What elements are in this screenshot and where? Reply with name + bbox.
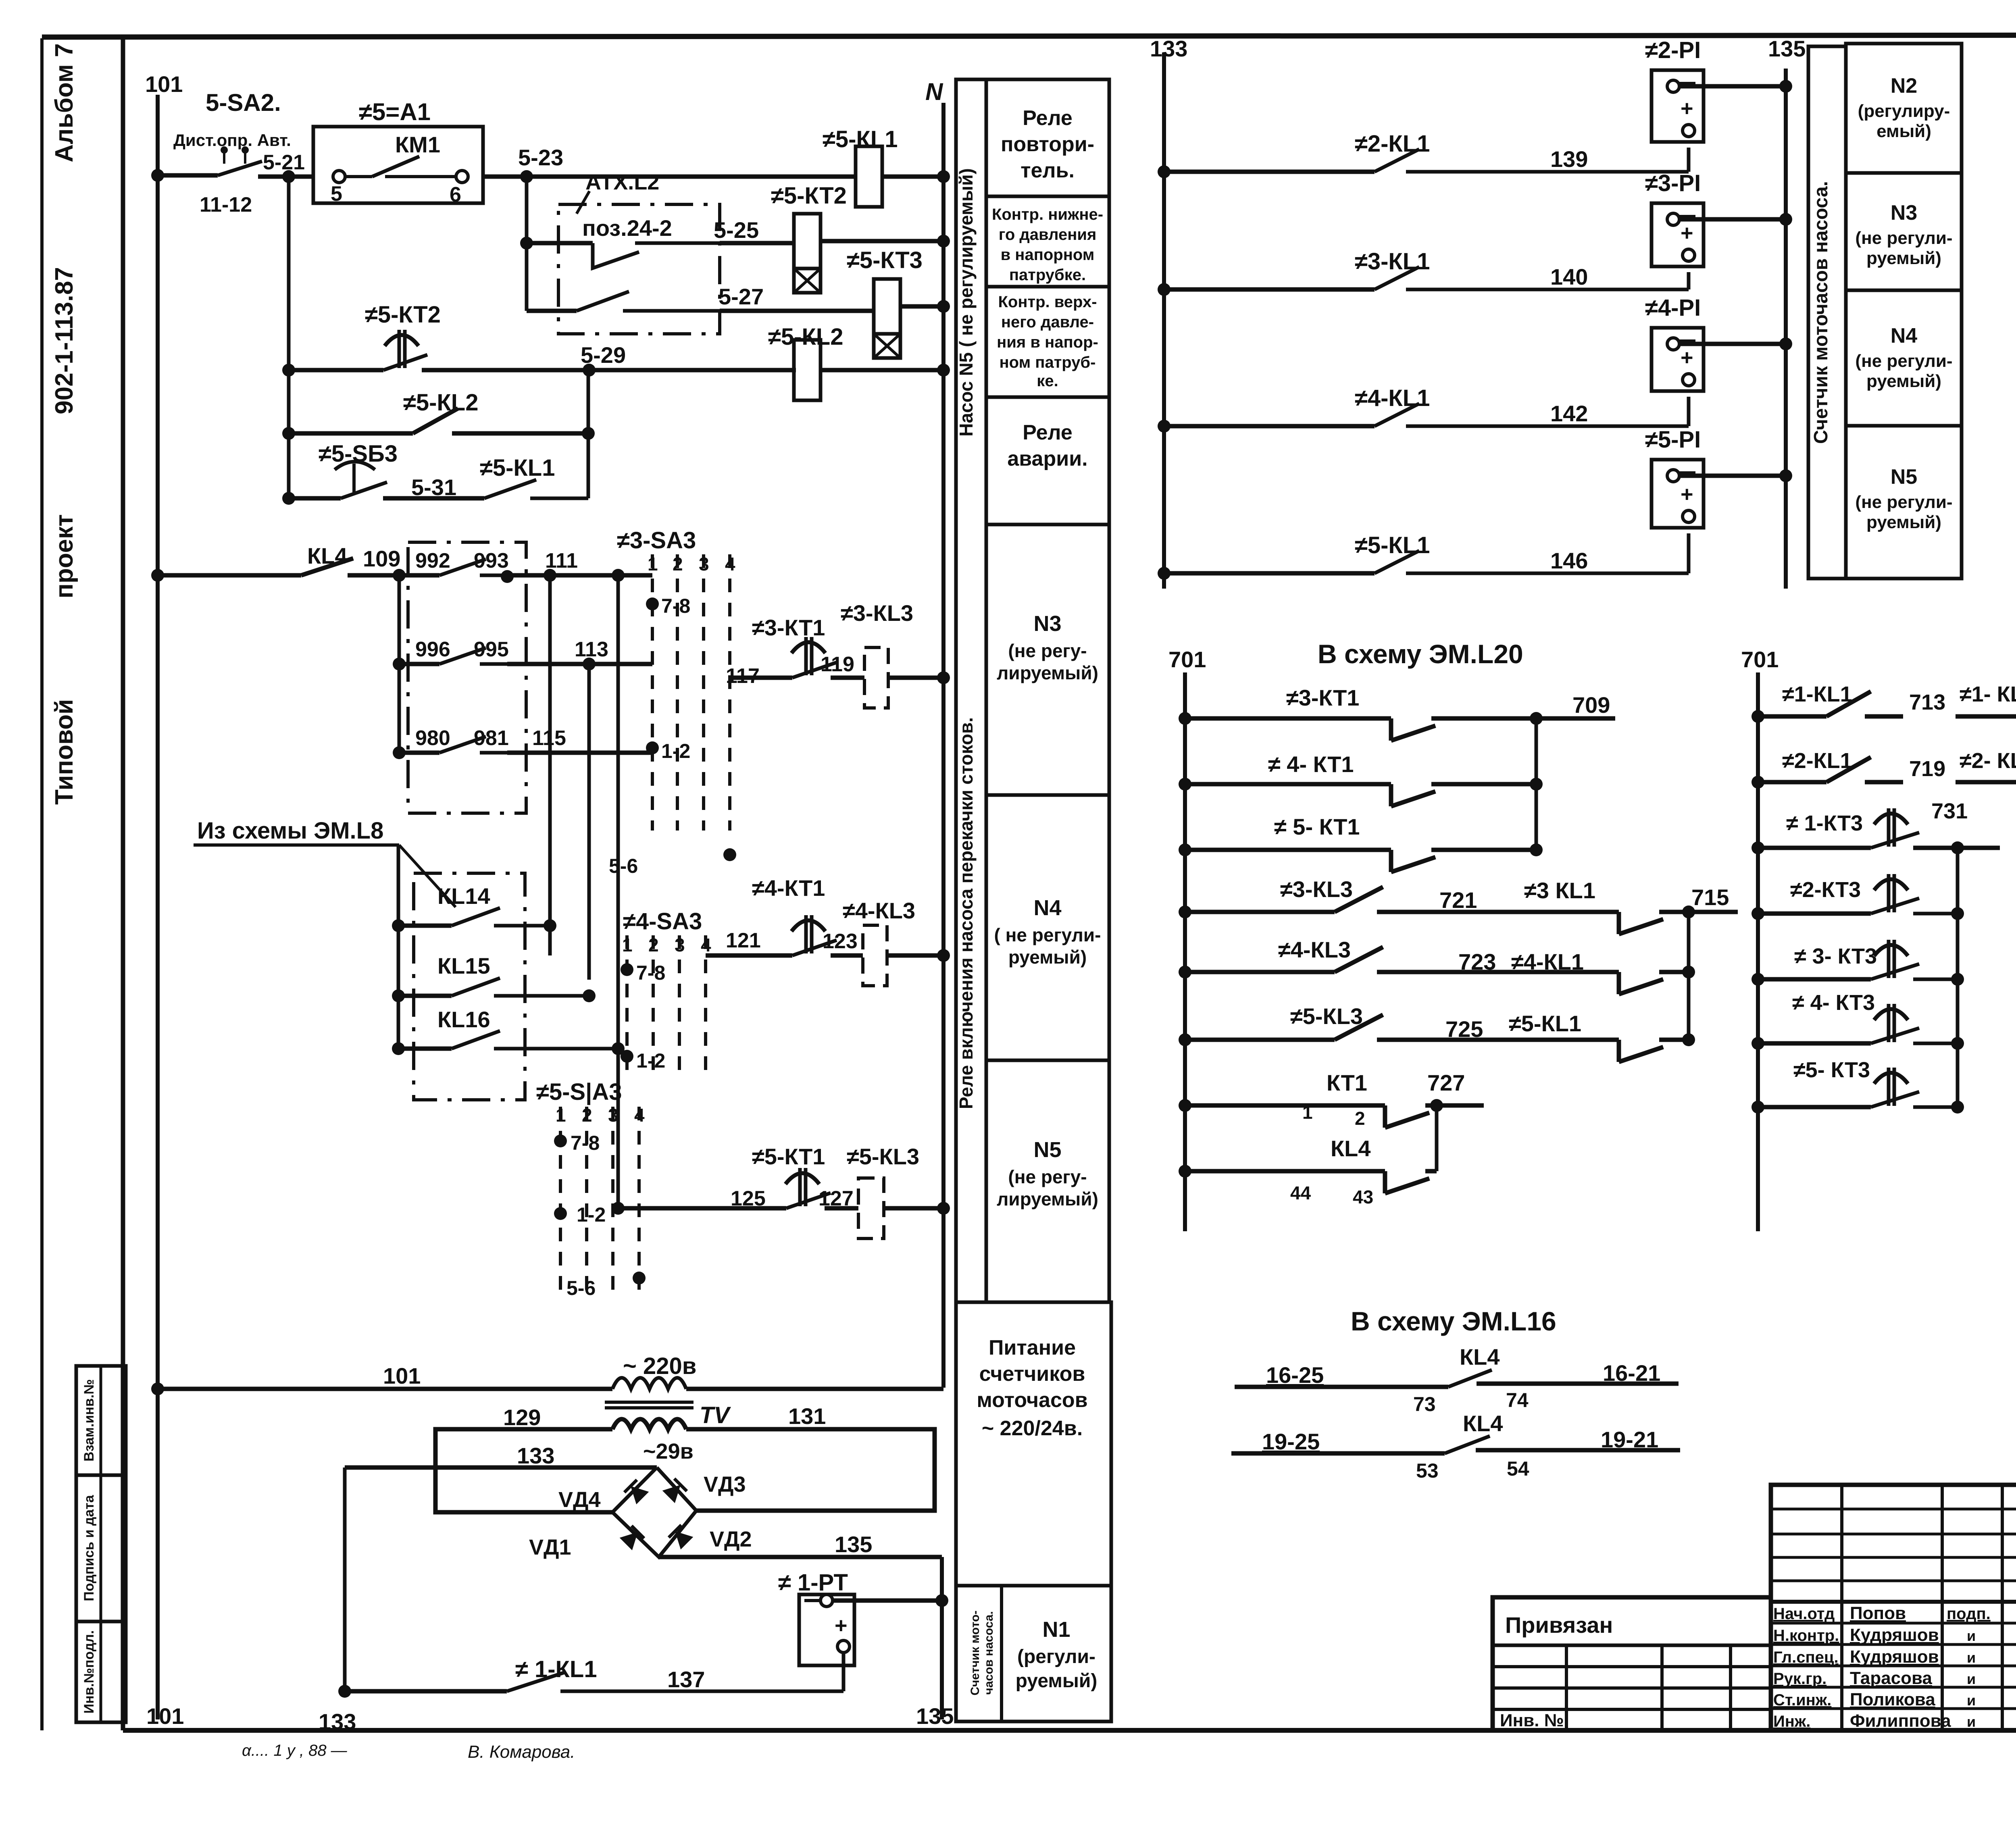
svg-text:≠5-SБ3: ≠5-SБ3 <box>319 441 398 467</box>
contact ≠1-KL2 r <box>1956 714 2016 719</box>
contact 980-981 <box>393 746 406 759</box>
svg-text:Из схемы ЭМ.L8: Из схемы ЭМ.L8 <box>197 818 383 844</box>
node 7-8 <box>646 597 659 610</box>
svg-text:Нач.отд: Нач.отд <box>1773 1605 1835 1623</box>
node 701r row6 <box>1752 1037 1764 1050</box>
node 701r row1 <box>1752 710 1764 723</box>
bus 101 vertical <box>156 95 160 1719</box>
contact KL4 19 row <box>1445 1436 1490 1453</box>
pressure relay box ≠1-PT <box>799 1594 854 1665</box>
svg-text:VД2: VД2 <box>710 1527 752 1551</box>
svg-text:993: 993 <box>474 549 509 572</box>
svg-text:+: + <box>1681 221 1693 245</box>
node 701 5kt1 <box>1179 843 1191 856</box>
svg-text:Контр. верх-: Контр. верх- <box>998 293 1097 311</box>
box N4 divider <box>986 1059 1109 1062</box>
wire 121 row <box>706 953 792 958</box>
svg-text:1: 1 <box>1302 1102 1313 1123</box>
svg-text:142: 142 <box>1550 401 1588 426</box>
wire ≠2-РI minus to 135 rail <box>1679 84 1786 89</box>
node 1-2 <box>646 741 659 754</box>
svg-text:N4: N4 <box>1033 896 1061 920</box>
wire 115 row <box>507 751 652 755</box>
contact ≠1-KT3 time <box>1758 846 1871 850</box>
N rail vertical <box>941 103 946 1388</box>
rail into KL contacts <box>397 845 400 1049</box>
svg-text:980: 980 <box>415 726 450 750</box>
svg-text:N5: N5 <box>1891 465 1917 489</box>
transformer TV core <box>605 1401 694 1404</box>
svg-text:в напорном: в напорном <box>1001 246 1095 264</box>
svg-text:ния в напор-: ния в напор- <box>997 333 1098 351</box>
node 133 row 140 <box>1158 283 1170 296</box>
coil ≠5-KL1 on row1 <box>856 146 882 207</box>
svg-text:5-27: 5-27 <box>719 284 764 309</box>
relay box поз.24-2 dash-dot outline <box>558 204 720 334</box>
svg-text:В. Комарова.: В. Комарова. <box>468 1742 575 1762</box>
wire ≠5-РI minus to 135 rail <box>1679 474 1786 478</box>
svg-text:≠5-S|А3: ≠5-S|А3 <box>536 1079 622 1105</box>
≠3-РI plus terminal <box>1683 249 1695 261</box>
coil ≠5-KT3 with X <box>874 279 900 334</box>
svg-text:146: 146 <box>1550 548 1588 573</box>
svg-text:101: 101 <box>146 1703 184 1729</box>
contact ≠3-KT1 time <box>791 642 825 653</box>
wire 731 <box>1913 846 1958 850</box>
contact ≠2-KL1 r <box>1758 780 1826 785</box>
contact 992-993 <box>399 573 439 578</box>
wire 5-27 to N <box>900 304 943 309</box>
svg-text:~ 220/24в.: ~ 220/24в. <box>982 1417 1083 1440</box>
wire 731 stub <box>1958 846 2000 850</box>
node 109 <box>393 569 406 582</box>
svg-text:Поликова: Поликова <box>1850 1690 1935 1709</box>
wire 5-21 <box>258 175 313 179</box>
wire ≠4-РI minus to 135 rail <box>1679 342 1786 346</box>
wire 19-21 <box>1476 1448 1680 1453</box>
svg-text:N1: N1 <box>1042 1617 1070 1642</box>
svg-text:Реле: Реле <box>1023 421 1073 444</box>
svg-text:Счетчик мото-: Счетчик мото- <box>968 1611 982 1696</box>
contact ≠1-KL1 bottom <box>507 1672 566 1691</box>
leader line АТХ.L2 <box>577 191 589 214</box>
diode bridge frame <box>612 1467 696 1557</box>
svg-text:Гл.спец.: Гл.спец. <box>1773 1649 1839 1666</box>
svg-text:140: 140 <box>1550 264 1588 289</box>
descriptor column outer box <box>956 79 1109 1302</box>
contact ≠4-KT1 time <box>791 920 825 931</box>
selector 5-SA3 dashed columns <box>559 1107 562 1298</box>
svg-text:Инв.№подл.: Инв.№подл. <box>81 1630 97 1714</box>
svg-text:часов насоса.: часов насоса. <box>982 1611 996 1694</box>
svg-text:лируемый): лируемый) <box>997 662 1098 683</box>
svg-text:Счетчик моточасов насоса.: Счетчик моточасов насоса. <box>1810 181 1832 444</box>
svg-text:ТV: ТV <box>700 1402 731 1428</box>
svg-text:Кудряшов: Кудряшов <box>1850 1647 1939 1667</box>
svg-text:≠ 5- КТ1: ≠ 5- КТ1 <box>1274 814 1360 839</box>
contact KM1 <box>333 171 345 183</box>
rail 135 vertical <box>940 1557 944 1719</box>
svg-text:2: 2 <box>582 1105 592 1126</box>
svg-text:721: 721 <box>1439 887 1477 913</box>
svg-text:Альбом 7: Альбом 7 <box>50 43 78 162</box>
svg-text:109: 109 <box>363 546 400 571</box>
svg-text:3: 3 <box>699 554 709 575</box>
svg-text:Дист.опр. Авт.: Дист.опр. Авт. <box>173 131 291 150</box>
svg-text:≠1-КL1: ≠1-КL1 <box>1782 682 1852 706</box>
contact ≠3-KL3 L20 <box>1185 910 1335 914</box>
svg-text:≠5-КL1: ≠5-КL1 <box>480 455 555 481</box>
svg-text:(не регу-: (не регу- <box>1008 640 1087 661</box>
contact KL14 <box>392 919 405 932</box>
bus 133 vertical <box>1162 52 1166 589</box>
contact ≠3-КL1 <box>1164 287 1375 292</box>
vertical 715 column <box>1687 912 1691 1040</box>
svg-text:≠5=А1: ≠5=А1 <box>359 98 431 125</box>
name table thick divider <box>1771 1600 2016 1604</box>
svg-text:709: 709 <box>1572 692 1610 718</box>
contact ≠1-KL1 r <box>1758 714 1826 719</box>
svg-text:КL4: КL4 <box>1463 1411 1503 1436</box>
wire 709 <box>1530 712 1543 725</box>
svg-text:≠3-КL1: ≠3-КL1 <box>1355 248 1430 275</box>
frame border left <box>121 35 125 1730</box>
svg-text:α.... 1 у , 88 —: α.... 1 у , 88 — <box>242 1742 348 1759</box>
left rail of rows 2-5 <box>287 177 291 498</box>
wire 111 row <box>507 573 652 578</box>
contact ≠4-КL1 <box>1164 424 1375 429</box>
svg-text:731: 731 <box>1931 799 1968 823</box>
node 111b <box>612 569 625 582</box>
svg-text:руемый): руемый) <box>1866 512 1941 532</box>
svg-text:и: и <box>1967 1671 1976 1687</box>
wire 5-29 <box>422 368 796 373</box>
svg-text:+: + <box>1681 346 1693 370</box>
node 5SA3 5-6 <box>633 1272 646 1284</box>
wire row1 bus to SA2 <box>158 173 218 178</box>
svg-text:6: 6 <box>450 183 461 206</box>
node 701r row7 <box>1752 1101 1764 1114</box>
≠2-РI plus terminal <box>1683 125 1695 137</box>
contact ≠5-KL1 L20 <box>1597 1038 1619 1042</box>
box Реле повторитель divider <box>986 195 1109 198</box>
coil ≠5-KL2 row <box>794 340 821 400</box>
svg-text:АТХ.L2: АТХ.L2 <box>585 170 659 194</box>
svg-text:≠5-РI: ≠5-РI <box>1645 427 1701 453</box>
wire 133 horizontal <box>345 1465 657 1470</box>
Привязан divider h <box>1493 1644 1771 1647</box>
contact ≠2-КL1 <box>1164 170 1375 174</box>
left margin stamp inner divider <box>100 1366 102 1722</box>
node 133 row 146 <box>1158 567 1170 580</box>
svg-text:135: 135 <box>835 1532 872 1557</box>
svg-text:КМ1: КМ1 <box>395 132 440 157</box>
contact ≠2-KT3 time <box>1758 912 1871 916</box>
name table outer <box>1771 1485 2016 1730</box>
contact ≠3-KT3 time <box>1758 977 1871 982</box>
node bus 101 bottom branch <box>151 1382 164 1395</box>
node 133 row 142 <box>1158 420 1170 433</box>
contact ≠5-KL2 <box>289 431 413 436</box>
switch 5-SA2 dashed links <box>223 150 225 173</box>
svg-text:N3: N3 <box>1033 612 1061 636</box>
svg-text:≠5-КL2: ≠5-КL2 <box>768 324 843 350</box>
svg-text:121: 121 <box>726 929 761 952</box>
svg-text:руемый): руемый) <box>1016 1670 1098 1692</box>
wire 117 row <box>730 676 792 680</box>
svg-text:131: 131 <box>788 1403 826 1429</box>
box Реле аварии divider <box>986 523 1109 527</box>
svg-text:+: + <box>1681 96 1693 121</box>
svg-text:Попов: Попов <box>1850 1603 1906 1623</box>
wire 142 up to PI <box>1687 397 1691 426</box>
vertical 727 column <box>1435 1105 1439 1171</box>
svg-text:3: 3 <box>608 1105 619 1126</box>
wire 5-29 to N <box>821 368 943 373</box>
svg-text:139: 139 <box>1550 146 1588 172</box>
svg-text:133: 133 <box>517 1443 554 1468</box>
≠3-РI minus terminal <box>1667 213 1679 225</box>
svg-text:Филиппова: Филиппова <box>1850 1711 1951 1731</box>
svg-text:7-8: 7-8 <box>636 962 665 984</box>
svg-text:74: 74 <box>1506 1389 1529 1411</box>
node 701r row2 <box>1752 776 1764 789</box>
svg-text:1-2: 1-2 <box>577 1203 606 1226</box>
wire 146 up to PI <box>1687 533 1691 573</box>
node 5SA3 1-2 <box>554 1207 567 1220</box>
svg-text:КL4: КL4 <box>307 543 348 568</box>
node 111a <box>544 569 556 582</box>
svg-text:1-2: 1-2 <box>636 1049 665 1072</box>
svg-text:Рук.гр.: Рук.гр. <box>1773 1670 1826 1688</box>
svg-text:1: 1 <box>622 935 633 955</box>
pressure sensor box ≠2-РI <box>1652 70 1704 142</box>
wire 5-25 to N <box>821 239 943 244</box>
svg-text:счетчиков: счетчиков <box>979 1362 1085 1386</box>
coil ≠4-KL3 dash-dot <box>863 925 887 986</box>
wire into box row 5-25 <box>527 241 593 246</box>
node 5SA3 7-8 <box>554 1134 567 1147</box>
pressure sensor box ≠3-РI <box>1652 203 1704 266</box>
wire 137 row <box>345 1689 507 1694</box>
svg-text:Ст.инж.: Ст.инж. <box>1773 1691 1831 1709</box>
svg-text:5-21: 5-21 <box>263 151 305 174</box>
svg-text:Н.контр.: Н.контр. <box>1773 1627 1839 1644</box>
svg-text:5-31: 5-31 <box>411 475 456 500</box>
wire 131 <box>686 1429 935 1511</box>
svg-text:емый): емый) <box>1876 121 1931 141</box>
wire 129 <box>435 1429 612 1512</box>
svg-text:≠5-КТ2: ≠5-КТ2 <box>771 183 847 209</box>
node 701 kt1 row <box>1179 1099 1191 1112</box>
svg-text:≠4-КL3: ≠4-КL3 <box>1278 937 1351 962</box>
node 4SA3 1-2 <box>621 1050 633 1063</box>
svg-text:725: 725 <box>1445 1016 1483 1042</box>
name table verticals <box>1840 1485 1843 1730</box>
contact ≠3-KT1 L20 <box>1185 716 1391 721</box>
frame border bottom <box>123 1728 2016 1733</box>
svg-text:2: 2 <box>1355 1108 1365 1129</box>
wire PT down <box>842 1652 846 1691</box>
contact ≠5-КL1 <box>1164 571 1375 576</box>
contact KL15 <box>392 989 405 1002</box>
svg-text:119: 119 <box>821 653 854 676</box>
svg-text:≠4-КТ1: ≠4-КТ1 <box>752 875 825 901</box>
wire 5-23 <box>483 175 856 179</box>
svg-text:5-6: 5-6 <box>609 855 638 877</box>
wire 723 <box>1423 970 1597 974</box>
svg-text:В схему ЭМ.L20: В схему ЭМ.L20 <box>1318 639 1523 669</box>
wire 721 <box>1423 910 1597 914</box>
wire 715 stub <box>1689 910 1738 914</box>
svg-text:≠3 КL1: ≠3 КL1 <box>1524 878 1595 903</box>
svg-text:3: 3 <box>675 935 685 955</box>
svg-text:129: 129 <box>503 1405 541 1430</box>
svg-text:≠3-КL3: ≠3-КL3 <box>841 600 913 626</box>
svg-text:701: 701 <box>1168 647 1206 672</box>
svg-text:981: 981 <box>474 726 509 750</box>
node bus101-row1 <box>151 169 164 182</box>
vertical 109-right column <box>616 575 620 1208</box>
node 701 kl4 row <box>1179 1165 1191 1178</box>
svg-text:(регулиру-: (регулиру- <box>1858 101 1950 121</box>
bus 701 left <box>1183 672 1187 1231</box>
node 727 <box>1430 1099 1443 1112</box>
svg-text:1-2: 1-2 <box>661 740 690 762</box>
svg-text:Типовой: Типовой <box>50 699 78 805</box>
coil ≠5-KL3 dash-dot <box>858 1178 884 1239</box>
box Контр верхнего divider <box>986 395 1109 399</box>
svg-text:руемый): руемый) <box>1866 248 1941 268</box>
diode VD3 <box>662 1479 687 1503</box>
wire 5-25 <box>720 241 794 246</box>
name table top rows <box>1771 1508 2016 1511</box>
node 731 <box>1951 841 1964 854</box>
wire TV primary to N rail <box>686 1387 943 1391</box>
svg-text:Привязан: Привязан <box>1505 1612 1613 1638</box>
wire into box row 5-27 <box>527 309 577 313</box>
svg-text:5: 5 <box>331 182 342 206</box>
svg-text:( не регули-: ( не регули- <box>994 924 1101 945</box>
svg-text:2: 2 <box>673 554 683 575</box>
svg-text:≠5-КL1: ≠5-КL1 <box>1509 1011 1581 1036</box>
svg-text:≠ 4- КТ3: ≠ 4- КТ3 <box>1792 991 1875 1015</box>
svg-text:КL4: КL4 <box>1331 1136 1371 1161</box>
wire branch down to poz.24-2 <box>525 177 529 311</box>
wire 133 vertical <box>343 1467 347 1691</box>
svg-text:N: N <box>925 78 943 105</box>
svg-text:4: 4 <box>725 554 735 575</box>
node 701 5kl3 <box>1179 1033 1191 1046</box>
svg-text:≠ 4- КТ1: ≠ 4- КТ1 <box>1268 751 1354 777</box>
wire ≠3-РI minus to 135 rail <box>1679 217 1786 222</box>
svg-text:135: 135 <box>916 1703 954 1729</box>
svg-text:715: 715 <box>1691 885 1729 910</box>
wire 127 to N <box>884 1206 943 1211</box>
svg-text:19-25: 19-25 <box>1262 1429 1320 1454</box>
vertical 111-column <box>548 575 552 955</box>
svg-text:996: 996 <box>415 638 450 661</box>
hour-counter column box wide <box>1846 44 1962 579</box>
leader to KL box <box>399 845 456 907</box>
svg-text:117: 117 <box>726 664 760 688</box>
svg-text:N2: N2 <box>1891 74 1917 98</box>
svg-text:7-8: 7-8 <box>571 1132 600 1154</box>
svg-text:≠ 1-КL1: ≠ 1-КL1 <box>515 1656 597 1682</box>
contact ≠5-KT2 time <box>289 368 383 373</box>
≠4-РI minus terminal <box>1667 338 1679 350</box>
svg-text:≠5-КL1: ≠5-КL1 <box>823 126 898 152</box>
sheet outer left edge line <box>40 38 44 1730</box>
svg-text:КL14: КL14 <box>437 883 490 909</box>
node rail row KT2 <box>282 364 295 377</box>
svg-text:723: 723 <box>1458 949 1496 974</box>
contact KL4 109 row <box>158 573 301 578</box>
svg-text:≠3-РI: ≠3-РI <box>1645 170 1701 196</box>
svg-text:моточасов: моточасов <box>977 1388 1087 1412</box>
wire KL2 row right vertical <box>587 370 590 498</box>
node 715b <box>1682 966 1695 978</box>
svg-text:+: + <box>1681 482 1693 506</box>
interface box (992-981) dash-dot outline <box>408 542 526 813</box>
svg-text:101: 101 <box>383 1363 421 1388</box>
left margin stamp box Взам.инв.№ <box>76 1366 126 1475</box>
contact ≠4-KT3 time <box>1758 1041 1871 1046</box>
box Питание счетчиков <box>956 1302 1111 1586</box>
diode VD2 <box>669 1525 694 1550</box>
hour-counter column box narrow <box>1808 46 1846 579</box>
svg-text:4: 4 <box>634 1105 645 1126</box>
diode VD1 <box>620 1526 644 1551</box>
svg-text:проект: проект <box>50 514 78 598</box>
contact KT1 727 <box>1185 1103 1385 1108</box>
contact ≠5-KT3 time <box>1758 1105 1871 1109</box>
underline Из схемы <box>194 843 399 847</box>
contact ≠5-KT1 time <box>785 1173 819 1184</box>
divider N4/N5 <box>1846 424 1962 428</box>
svg-text:N4: N4 <box>1891 324 1918 348</box>
node 5-25 branch <box>520 237 533 250</box>
node 133 row 139 <box>1158 165 1170 178</box>
svg-text:Контр. нижне-: Контр. нижне- <box>992 206 1103 223</box>
svg-text:Взам.инв.№: Взам.инв.№ <box>81 1379 97 1461</box>
wire 113 row <box>507 662 652 666</box>
pressure sensor box ≠4-РI <box>1652 328 1704 391</box>
node 701r row5 <box>1752 973 1764 986</box>
svg-text:2: 2 <box>648 935 659 955</box>
svg-text:≠5-КТ3: ≠5-КТ3 <box>847 247 923 273</box>
≠5-РI plus terminal <box>1683 510 1695 522</box>
node rail KL2 row <box>282 427 295 440</box>
svg-text:руемый): руемый) <box>1866 371 1941 391</box>
wire 727 stub <box>1437 1103 1484 1108</box>
node 701 4kt1 <box>1179 778 1191 791</box>
svg-text:КL16: КL16 <box>437 1007 490 1032</box>
svg-text:992: 992 <box>415 549 450 572</box>
svg-text:11-12: 11-12 <box>200 193 252 216</box>
svg-text:Реле: Реле <box>1023 106 1073 130</box>
wire 119 to N <box>888 676 943 680</box>
svg-text:руемый): руемый) <box>1008 947 1087 968</box>
wire 119 <box>831 676 864 680</box>
svg-text:54: 54 <box>1507 1457 1529 1480</box>
svg-text:≠2-КТ3: ≠2-КТ3 <box>1790 878 1861 902</box>
svg-text:≠ 1-КТ3: ≠ 1-КТ3 <box>1786 811 1863 835</box>
selector 4-SA3 dashed columns <box>625 935 629 1072</box>
rail 135 right vertical <box>1784 69 1788 589</box>
svg-text:≠5-КL1: ≠5-КL1 <box>1355 532 1430 558</box>
svg-text:~29в: ~29в <box>643 1439 694 1463</box>
